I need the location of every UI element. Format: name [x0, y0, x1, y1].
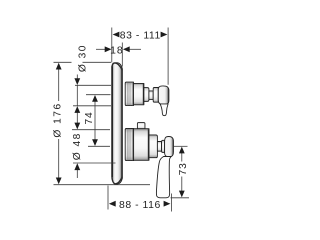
arrow Ø48 top (points down)	[74, 123, 80, 130]
plate top corner heavy contour	[112, 63, 122, 70]
upper lever arm	[160, 104, 168, 116]
lower cap cylinder	[149, 135, 157, 158]
ext line: lower axis right (73 top)	[174, 145, 188, 147]
arrow 73 bottom	[179, 191, 185, 198]
svg-text:74: 74	[84, 112, 95, 125]
leader 18 left	[96, 48, 105, 50]
plate front face edge	[111, 67, 113, 178]
arrow Ø176 top	[56, 63, 62, 70]
ext line: lever tip (73 bottom)	[171, 197, 190, 199]
Ø48 dimension line (tails)	[76, 112, 78, 124]
ext line: plate top (Ø176) right segment	[83, 61, 112, 63]
74 dimension line	[94, 101, 96, 141]
svg-text:Ø 176: Ø 176	[53, 102, 64, 137]
lower lever arm	[156, 156, 171, 197]
svg-text:Ø 48: Ø 48	[72, 132, 83, 160]
lower lever hub	[165, 137, 174, 157]
ext line: 88-116 left	[107, 186, 109, 210]
Ø176 dimension line	[58, 69, 60, 102]
ext line: Ø48 top	[72, 129, 110, 131]
arrow 74 bottom	[92, 139, 98, 146]
Ø30 dimension line	[76, 75, 78, 80]
ext line: plate front (top)	[111, 28, 113, 63]
ext line: upper hub front (top)	[167, 28, 169, 85]
upper valve barrel	[134, 83, 144, 104]
ext line: 88-116 right	[171, 194, 173, 212]
svg-text:83 - 111: 83 - 111	[120, 31, 161, 42]
ext line: plate bottom (Ø176)	[54, 184, 151, 186]
arrow 18 left (points right)	[105, 46, 112, 52]
arrow 18 right (points left)	[123, 46, 130, 52]
lower ring rib lines	[126, 129, 128, 161]
upper barrel front face	[142, 84, 144, 104]
svg-text:73: 73	[178, 162, 189, 175]
73 dimension line	[181, 153, 183, 162]
upper lever hub	[158, 86, 169, 104]
arrow Ø30 bottom (points up)	[74, 106, 80, 113]
upper stem	[149, 91, 153, 100]
upper ring rib lines	[126, 82, 128, 105]
ext line: wall plane for 18	[121, 43, 123, 67]
svg-text:88 - 116: 88 - 116	[119, 200, 161, 211]
lower stem	[157, 142, 161, 152]
arrow 74 top	[92, 95, 98, 102]
dimension graphics	[54, 28, 190, 212]
svg-text:Ø 30: Ø 30	[78, 44, 89, 72]
upper collar	[153, 88, 158, 103]
arrow 88-116 left	[109, 201, 116, 207]
arrow Ø48 bottom (points up)	[74, 163, 80, 170]
arrow Ø176 bottom	[56, 178, 62, 185]
ext line: Ø48 bottom	[73, 162, 116, 164]
ext line: upper axis (74 top)	[86, 94, 111, 96]
ext line: lower axis (74 bottom)	[88, 145, 110, 147]
arrow Ø30 top (points down)	[74, 78, 80, 85]
plate bottom corner heavy contour	[112, 177, 122, 184]
ext line: Ø30 top	[75, 84, 111, 86]
upper cap cylinder	[144, 88, 149, 102]
lower valve ribbed ring	[125, 129, 133, 161]
escutcheon plate (side profile)	[112, 63, 123, 185]
plate back edge	[121, 68, 123, 178]
ext line: Ø30 bottom	[73, 105, 111, 107]
arrow 73 top	[179, 147, 185, 154]
arrow 83-111 right	[161, 32, 168, 38]
lower collar	[162, 140, 165, 152]
lower valve barrel	[134, 129, 149, 161]
lower barrel front face	[147, 129, 149, 159]
upper valve ribbed ring	[125, 82, 133, 106]
arrow 83-111 left	[113, 32, 120, 38]
leader 18 right	[129, 48, 141, 50]
ext line: plate top (Ø176) left segment	[54, 61, 72, 63]
arrow 88-116 right	[164, 201, 171, 207]
svg-text:18: 18	[110, 45, 124, 56]
lower valve button on top	[137, 123, 145, 129]
